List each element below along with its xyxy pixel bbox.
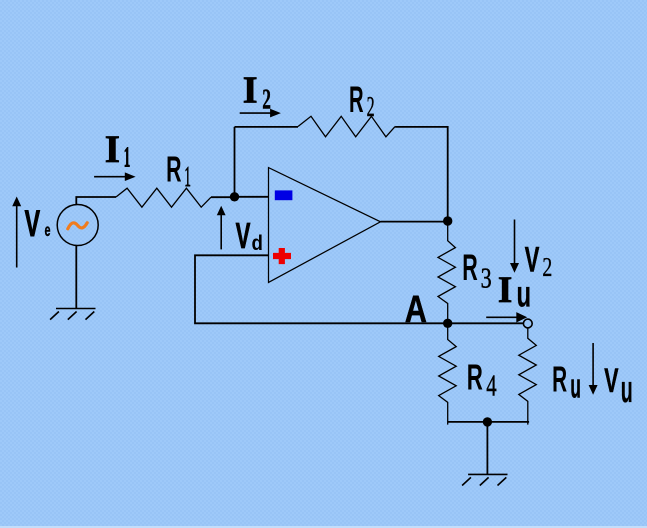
svg-text:2: 2 [262,84,271,116]
svg-text:R: R [349,79,364,120]
node bottom [483,417,492,426]
node A [443,319,452,328]
svg-text:V: V [604,362,618,400]
wire from source top to R1 [76,197,116,205]
svg-text:V: V [25,203,41,244]
arrow Ve (up) [12,197,21,268]
svg-text:2: 2 [542,252,552,282]
svg-text:I: I [243,70,258,112]
op-amp U1 [269,168,381,283]
wire feedback top left [235,126,299,128]
svg-text:3: 3 [481,263,492,295]
label Ru [552,358,581,405]
svg-text:u: u [621,369,633,411]
label Vd [236,215,263,256]
wire to ground [486,422,488,475]
svg-text:R: R [552,358,567,399]
label R3 [462,247,491,294]
ground (left) [50,309,95,320]
sine symbol [68,223,87,229]
arrow Vd (up) [217,206,226,250]
resistor R3 [438,221,455,323]
label Iu [498,270,531,315]
node at inverting input [230,192,239,201]
svg-text:R: R [467,356,483,397]
wire plus input to feedback left [195,255,524,323]
label I1 [105,128,131,174]
svg-text:R: R [462,247,478,288]
svg-text:u: u [570,368,581,406]
label V2 [525,241,553,283]
minus input mark [275,190,293,200]
resistor R2 [298,116,395,137]
svg-text:1: 1 [184,161,191,193]
svg-text:d: d [252,232,263,255]
wire op-amp output [381,221,448,223]
arrow I1 [94,172,136,181]
svg-text:A: A [405,289,427,331]
wire from source bottom to ground [75,246,77,309]
label Vu [604,362,633,411]
wire R2 to output vertical [395,127,448,222]
voltage source Ve [57,205,98,246]
resistor R4 [439,323,457,424]
wire node to op-amp minus input [235,196,269,198]
plus input mark [273,248,291,264]
resistor R1 [116,188,211,207]
bottom wire [448,421,529,423]
svg-text:e: e [45,220,51,240]
label Ve [25,203,51,244]
wire R1 to node [211,196,235,198]
svg-text:1: 1 [124,142,131,174]
svg-text:4: 4 [486,368,497,403]
node output [443,216,452,225]
label R1 [166,149,191,193]
label R4 [467,356,497,402]
resistor Ru [519,328,537,425]
arrow V2 (down) [510,220,519,273]
arrow Iu (right) [486,312,527,322]
terminal (open circle) [523,319,532,328]
label I2 [243,70,271,116]
svg-text:V: V [236,215,251,256]
svg-text:I: I [105,128,120,171]
svg-text:R: R [166,149,181,190]
label R2 [349,79,375,123]
arrow I2 [240,109,281,118]
ground (bottom) [462,474,507,485]
svg-text:2: 2 [367,91,375,123]
svg-text:I: I [498,270,512,311]
svg-text:u: u [517,274,532,315]
arrow Vu (down) [589,343,598,395]
wire node up to feedback [234,127,236,197]
